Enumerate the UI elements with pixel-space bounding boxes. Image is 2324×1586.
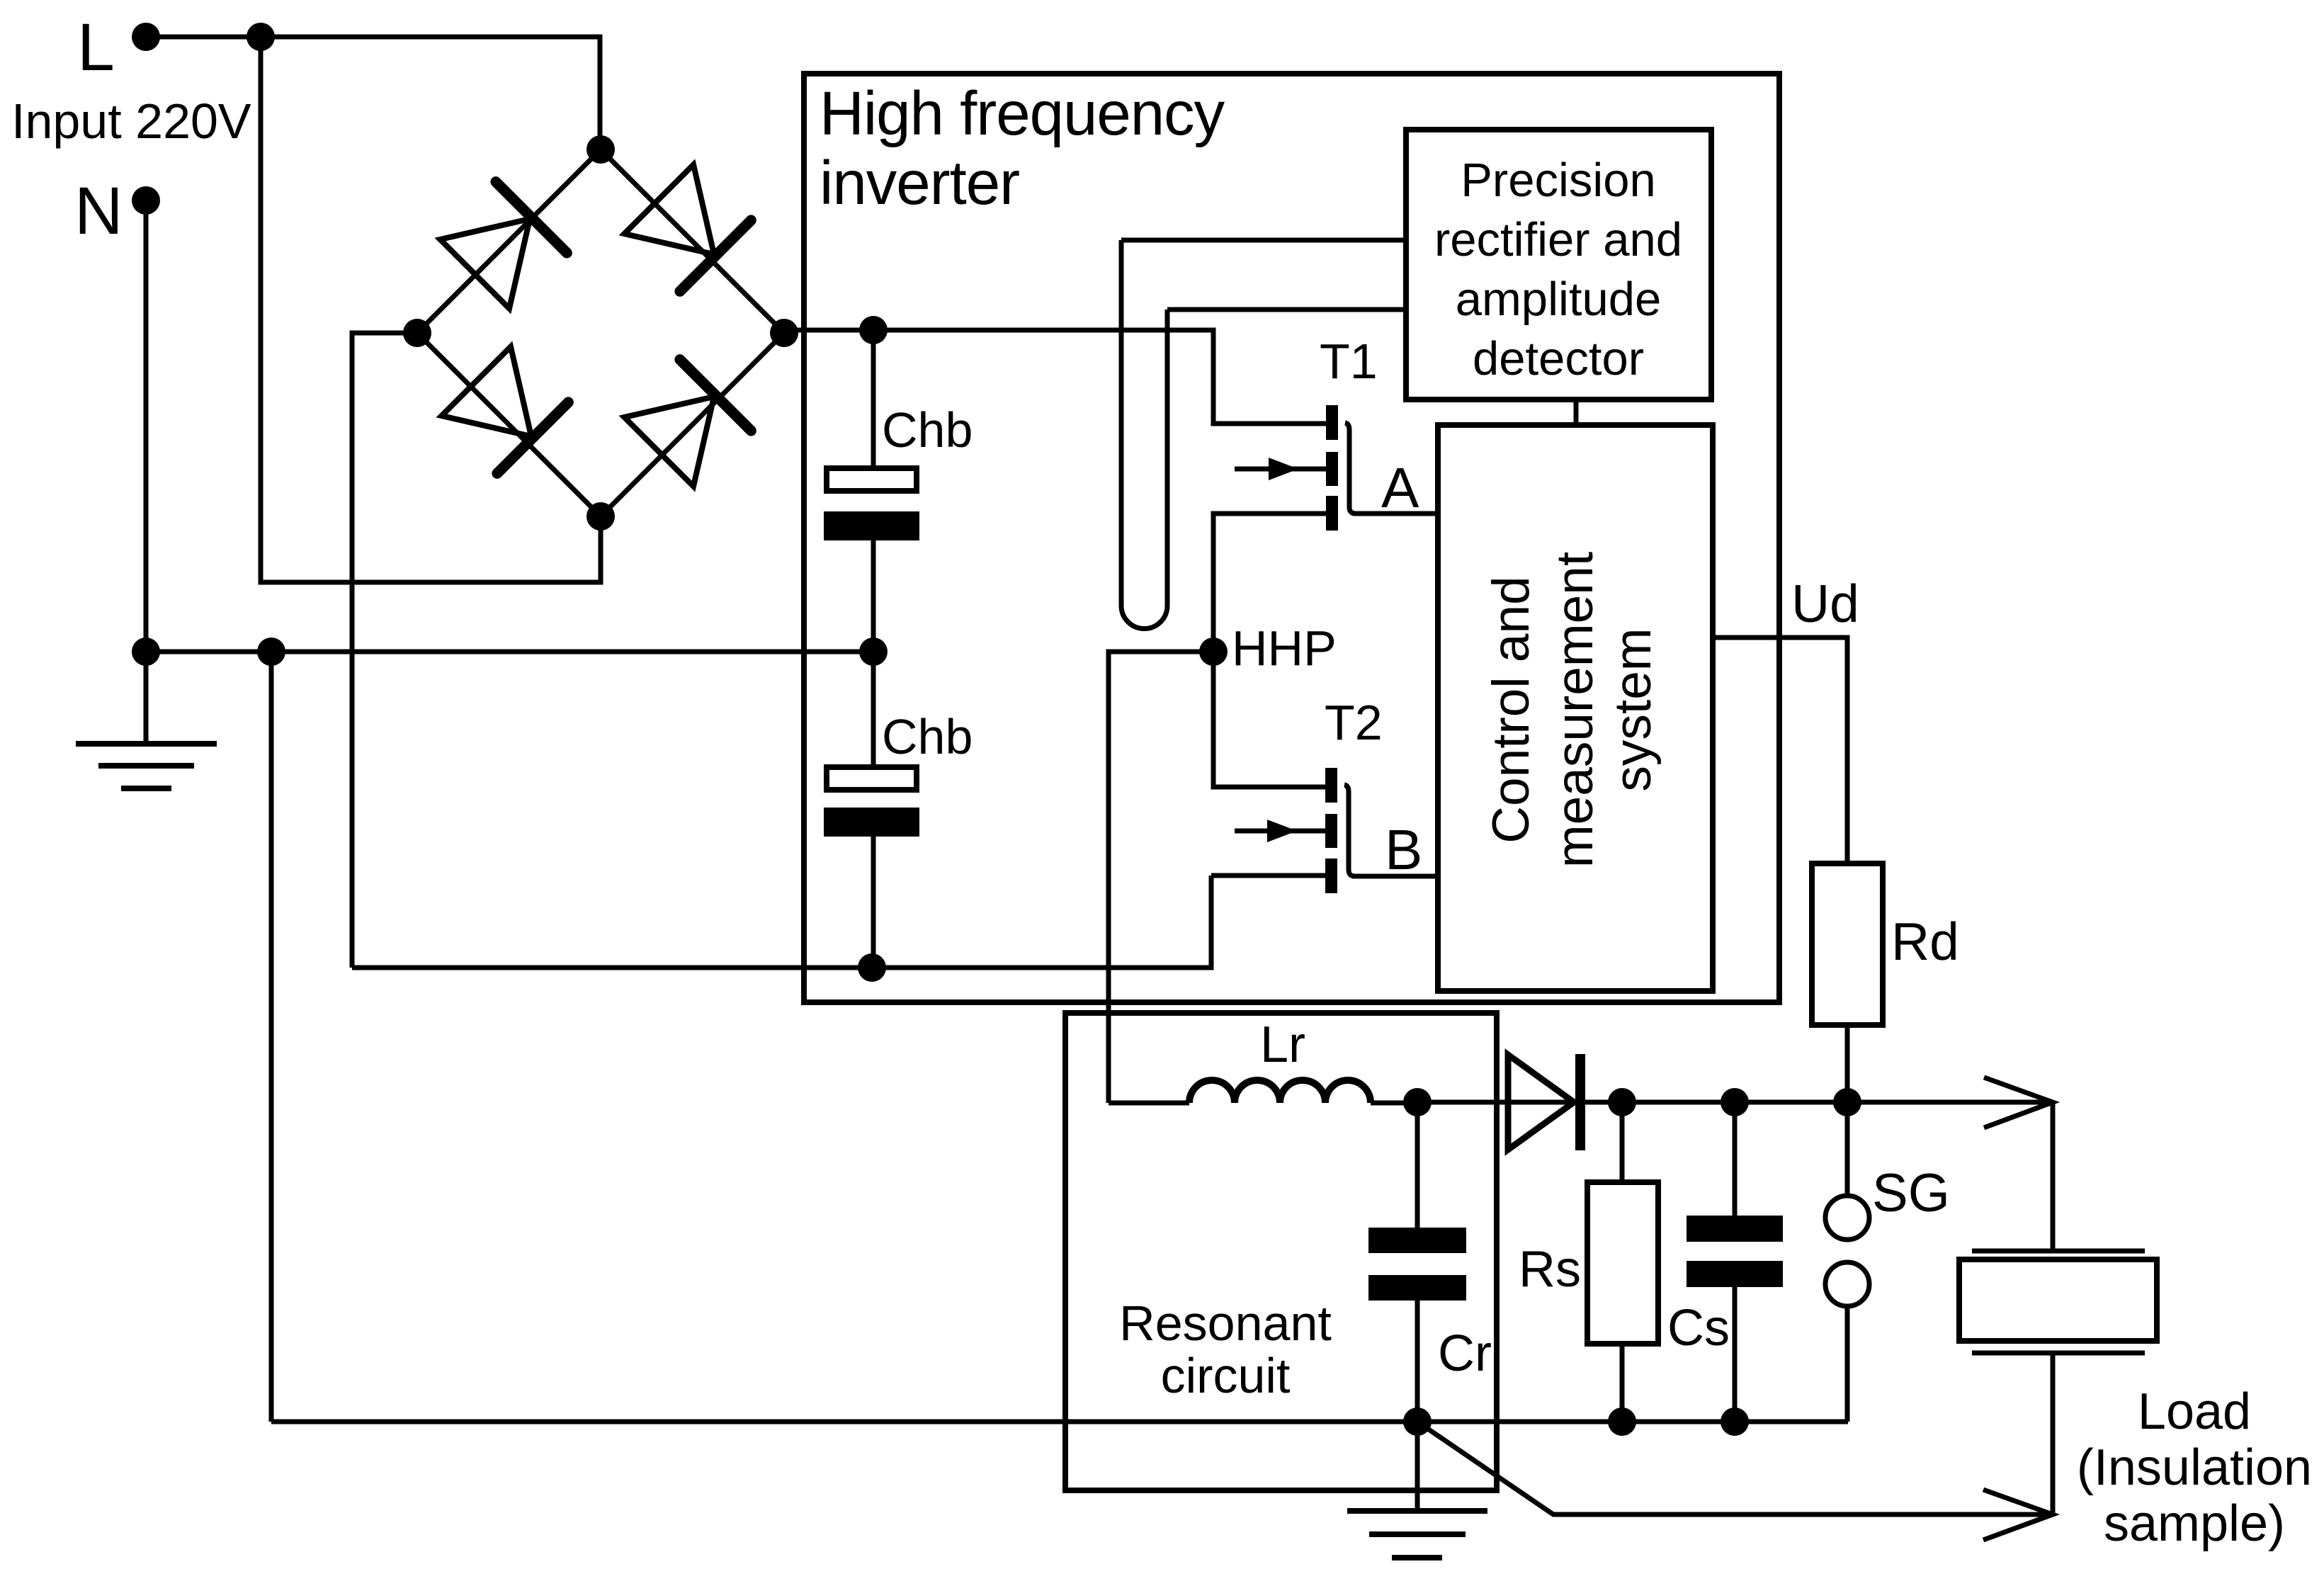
label Chb1 (882, 402, 973, 458)
svg-text:HHP: HHP (1232, 621, 1337, 676)
wire A (1353, 511, 1439, 516)
wire sense loop lower (1167, 307, 1406, 312)
svg-text:Resonant: Resonant (1119, 1296, 1332, 1351)
node Chb bottom (858, 953, 886, 982)
wire Ud (1713, 638, 1847, 863)
diode D2 top-right (623, 164, 751, 291)
svg-text:system: system (1604, 628, 1662, 791)
node Cr bottom (1403, 1407, 1432, 1436)
label High frequency inverter (820, 79, 1225, 217)
label Chb2 (882, 709, 973, 764)
svg-text:T2: T2 (1325, 695, 1383, 750)
wire precision to control (1574, 400, 1579, 425)
node Chb mid (859, 638, 888, 666)
label control system (1483, 552, 1662, 868)
node L junction (246, 23, 275, 51)
node Chb top (859, 316, 888, 344)
label Ud (1791, 574, 1859, 633)
node bottom feed (257, 638, 285, 666)
ground Cr (1347, 1511, 1487, 1558)
label Cs (1667, 1300, 1730, 1356)
node Rs bottom (1608, 1407, 1636, 1436)
wire T2 source (1211, 873, 1325, 878)
node bridge left (403, 319, 431, 347)
resistor Rs (1587, 1102, 1658, 1422)
node Cs bottom (1721, 1407, 1749, 1436)
label A (1381, 456, 1419, 519)
wire bridge left out (352, 333, 417, 968)
diode D4 bottom-right (623, 360, 751, 487)
svg-text:L: L (77, 10, 115, 85)
svg-text:(Insulation: (Insulation (2077, 1439, 2312, 1496)
capacitor Chb2 (824, 767, 919, 968)
box precision rectifier (1406, 130, 1711, 400)
wire sense loop upper (1121, 238, 1406, 243)
wire L down to bridge bottom (261, 37, 601, 582)
wire load bottom (2051, 1353, 2056, 1514)
svg-text:High frequency: High frequency (820, 79, 1225, 148)
svg-text:Input 220V: Input 220V (11, 94, 251, 149)
wire left return down (269, 652, 274, 1422)
terminal L (132, 23, 160, 51)
label Rs (1519, 1241, 1581, 1298)
spark gap SG (1825, 1102, 1869, 1422)
svg-text:Chb: Chb (882, 402, 973, 458)
label SG (1872, 1163, 1950, 1223)
wire positive rail (784, 330, 1326, 424)
node bridge top (586, 135, 615, 164)
wire L top (146, 37, 600, 149)
svg-text:Cr: Cr (1438, 1325, 1492, 1382)
svg-text:Rd: Rd (1891, 912, 1959, 971)
svg-text:Rs: Rs (1519, 1241, 1581, 1298)
svg-text:B: B (1385, 818, 1422, 881)
label resonant circuit (1119, 1296, 1332, 1403)
load sample (1959, 1251, 2157, 1353)
label Rd (1891, 912, 1959, 971)
node SG top (1833, 1088, 1861, 1116)
label precision rectifier (1434, 154, 1682, 385)
svg-text:detector: detector (1473, 332, 1644, 385)
svg-text:Control and: Control and (1483, 576, 1540, 843)
svg-text:Cs: Cs (1667, 1300, 1730, 1356)
inductor Lr (1109, 1080, 1417, 1103)
svg-text:measurement: measurement (1546, 552, 1604, 868)
svg-text:Precision: Precision (1461, 154, 1656, 207)
wire Rd bottom (1845, 1025, 1850, 1103)
svg-text:Ud: Ud (1791, 574, 1859, 633)
svg-text:T1: T1 (1320, 334, 1378, 389)
box resonant circuit (1065, 1013, 1497, 1490)
svg-text:circuit: circuit (1161, 1348, 1291, 1403)
diode bridge edges (417, 149, 784, 516)
label N (74, 174, 123, 249)
wire bottom rail (271, 1420, 1848, 1424)
label T2 (1325, 695, 1383, 750)
arrow to load bottom (1983, 1490, 2053, 1540)
wire N down (144, 200, 149, 652)
arrow to load top (1984, 1077, 2053, 1128)
wire load top (2051, 1102, 2056, 1251)
node HHP (1199, 638, 1228, 666)
wire diagonal to load return (1417, 1422, 2053, 1514)
svg-text:amplitude: amplitude (1456, 273, 1662, 326)
sense hairpin (1121, 240, 1167, 629)
svg-text:SG: SG (1872, 1163, 1950, 1223)
diode D1 top-left (439, 182, 567, 310)
label B (1385, 818, 1422, 881)
wire HV rail (1417, 1100, 2053, 1105)
node Lr out (1403, 1088, 1432, 1116)
node N rail (132, 638, 160, 666)
svg-text:Lr: Lr (1260, 1016, 1305, 1073)
label Cr (1438, 1325, 1492, 1382)
svg-text:sample): sample) (2104, 1495, 2285, 1552)
diode Do (1508, 1054, 1580, 1150)
transistor T2 (1235, 768, 1355, 893)
node Rs top (1608, 1088, 1636, 1116)
node bridge right (770, 319, 798, 347)
capacitor Cr (1368, 1102, 1466, 1422)
label T1 (1320, 334, 1378, 389)
ground left stem (144, 652, 149, 744)
ground Cr stem (1415, 1422, 1420, 1511)
box control system (1438, 425, 1713, 991)
label Lr (1260, 1016, 1305, 1073)
label L (77, 10, 115, 85)
box high frequency inverter (804, 74, 1779, 1002)
wire mid rail (146, 650, 873, 655)
ground left (76, 744, 217, 788)
svg-text:N: N (74, 174, 123, 249)
node bridge bottom (586, 502, 615, 531)
capacitor Chb1 (824, 330, 919, 764)
wire negative rail (352, 876, 1211, 968)
svg-text:rectifier and: rectifier and (1434, 213, 1682, 266)
wire HHP to resonant (1109, 652, 1213, 1103)
svg-text:Load: Load (2138, 1383, 2251, 1440)
capacitor Cs (1687, 1102, 1783, 1422)
svg-text:inverter: inverter (820, 149, 1019, 217)
terminal N (132, 186, 160, 215)
label HHP (1232, 621, 1337, 676)
transistor T1 (1235, 405, 1356, 531)
label Input 220V (11, 94, 251, 149)
svg-text:Chb: Chb (882, 709, 973, 764)
label Load (2077, 1383, 2312, 1552)
diode D3 bottom-left (441, 346, 568, 473)
node Cs top (1721, 1088, 1749, 1116)
wire T1 source to HHP to T2 drain (1213, 514, 1326, 787)
wire B (1352, 874, 1438, 879)
resistor Rd (1812, 863, 1883, 1025)
svg-text:A: A (1381, 456, 1419, 519)
